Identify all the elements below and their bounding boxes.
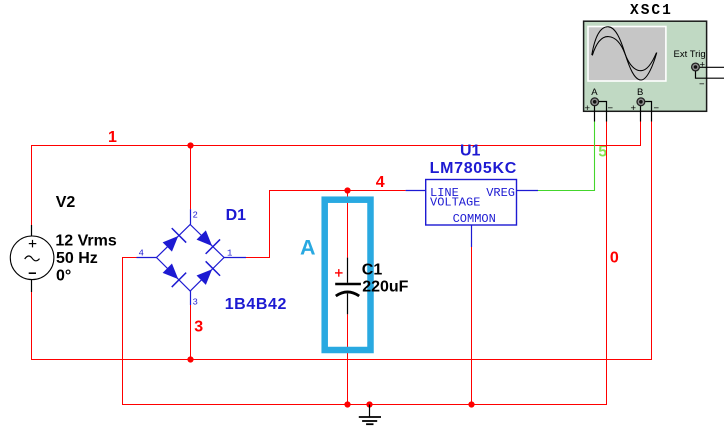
bridge rectifier D1 [137, 209, 247, 305]
pin COMMON stub [471, 225, 473, 247]
wire net 1 top horizontal [32, 122, 641, 226]
pin 1 stub [224, 257, 246, 259]
channel A stubs [594, 106, 596, 121]
svg-text:V2: V2 [56, 194, 76, 211]
diode bottom-left [160, 261, 186, 287]
svg-text:220uF: 220uF [362, 278, 408, 295]
svg-text:1: 1 [108, 129, 117, 146]
svg-text:+: + [631, 103, 637, 114]
channel B terminal [637, 98, 645, 106]
svg-text:4: 4 [376, 174, 385, 191]
ext trig wires [700, 66, 724, 68]
wire net 1 bridge drop [190, 146, 192, 210]
capacitor C1 [335, 258, 361, 315]
junction dot net0/ground [366, 401, 372, 407]
junction dot net0/cap [344, 401, 350, 407]
svg-text:U1: U1 [460, 143, 481, 160]
svg-text:1: 1 [227, 249, 232, 259]
svg-text:3: 3 [194, 319, 203, 336]
channel B stubs [640, 106, 642, 121]
svg-text:1B4B42: 1B4B42 [225, 296, 287, 313]
pin 4 stub [137, 257, 157, 259]
capacitor plus sign [335, 272, 343, 274]
svg-text:COMMON: COMMON [453, 212, 496, 226]
ext trig terminal [692, 63, 700, 71]
svg-text:0: 0 [610, 249, 619, 266]
svg-text:Ext Trig: Ext Trig [674, 49, 706, 60]
junction dot net3/bridge [187, 356, 193, 362]
svg-text:0°: 0° [56, 267, 71, 284]
svg-text:+: + [700, 60, 706, 71]
svg-text:A: A [300, 236, 316, 260]
wire net 0 [123, 122, 607, 405]
svg-text:4: 4 [139, 249, 144, 259]
svg-text:−: − [654, 103, 660, 114]
svg-text:B: B [637, 87, 643, 98]
AC source V2 [10, 225, 54, 292]
oscilloscope XSC1 [584, 21, 724, 121]
channel A terminal [591, 98, 599, 106]
svg-text:2: 2 [193, 211, 198, 221]
svg-text:C1: C1 [362, 262, 383, 279]
svg-text:A: A [591, 87, 598, 98]
pin LINE VOLTAGE stub [406, 190, 426, 192]
scope waveform outer [592, 27, 657, 80]
pin 2 stub [190, 209, 192, 224]
diode bottom-right [194, 261, 220, 287]
svg-text:VOLTAGE: VOLTAGE [430, 195, 480, 209]
ground [359, 405, 381, 425]
svg-text:12 Vrms: 12 Vrms [55, 232, 116, 249]
svg-text:VREG: VREG [486, 186, 515, 200]
wire net 3 [32, 122, 652, 360]
svg-text:−: − [699, 79, 705, 90]
regulator U1 [406, 180, 538, 248]
svg-text:D1: D1 [226, 207, 247, 224]
svg-text:+: + [585, 103, 591, 114]
junction dot net4/cap [344, 187, 350, 193]
diode top-left [160, 228, 186, 254]
pin 3 stub [190, 291, 192, 305]
svg-text:3: 3 [193, 298, 198, 308]
wire net 5 green [538, 122, 595, 191]
wire net 4 [246, 191, 406, 258]
pin VREG stub [517, 190, 539, 192]
scope screen [587, 26, 667, 82]
highlight box A [325, 200, 371, 350]
svg-text:50 Hz: 50 Hz [56, 250, 98, 267]
svg-text:−: − [608, 103, 614, 114]
scope waveform inner [592, 37, 656, 71]
svg-text:XSC1: XSC1 [630, 3, 673, 19]
diamond outline [157, 225, 225, 292]
junction dot net1/bridge [187, 142, 193, 148]
wire net 3 bridge drop [190, 305, 192, 360]
junction dot net0/common [468, 401, 474, 407]
diode top-right [194, 228, 220, 254]
svg-text:LM7805KC: LM7805KC [430, 160, 517, 177]
